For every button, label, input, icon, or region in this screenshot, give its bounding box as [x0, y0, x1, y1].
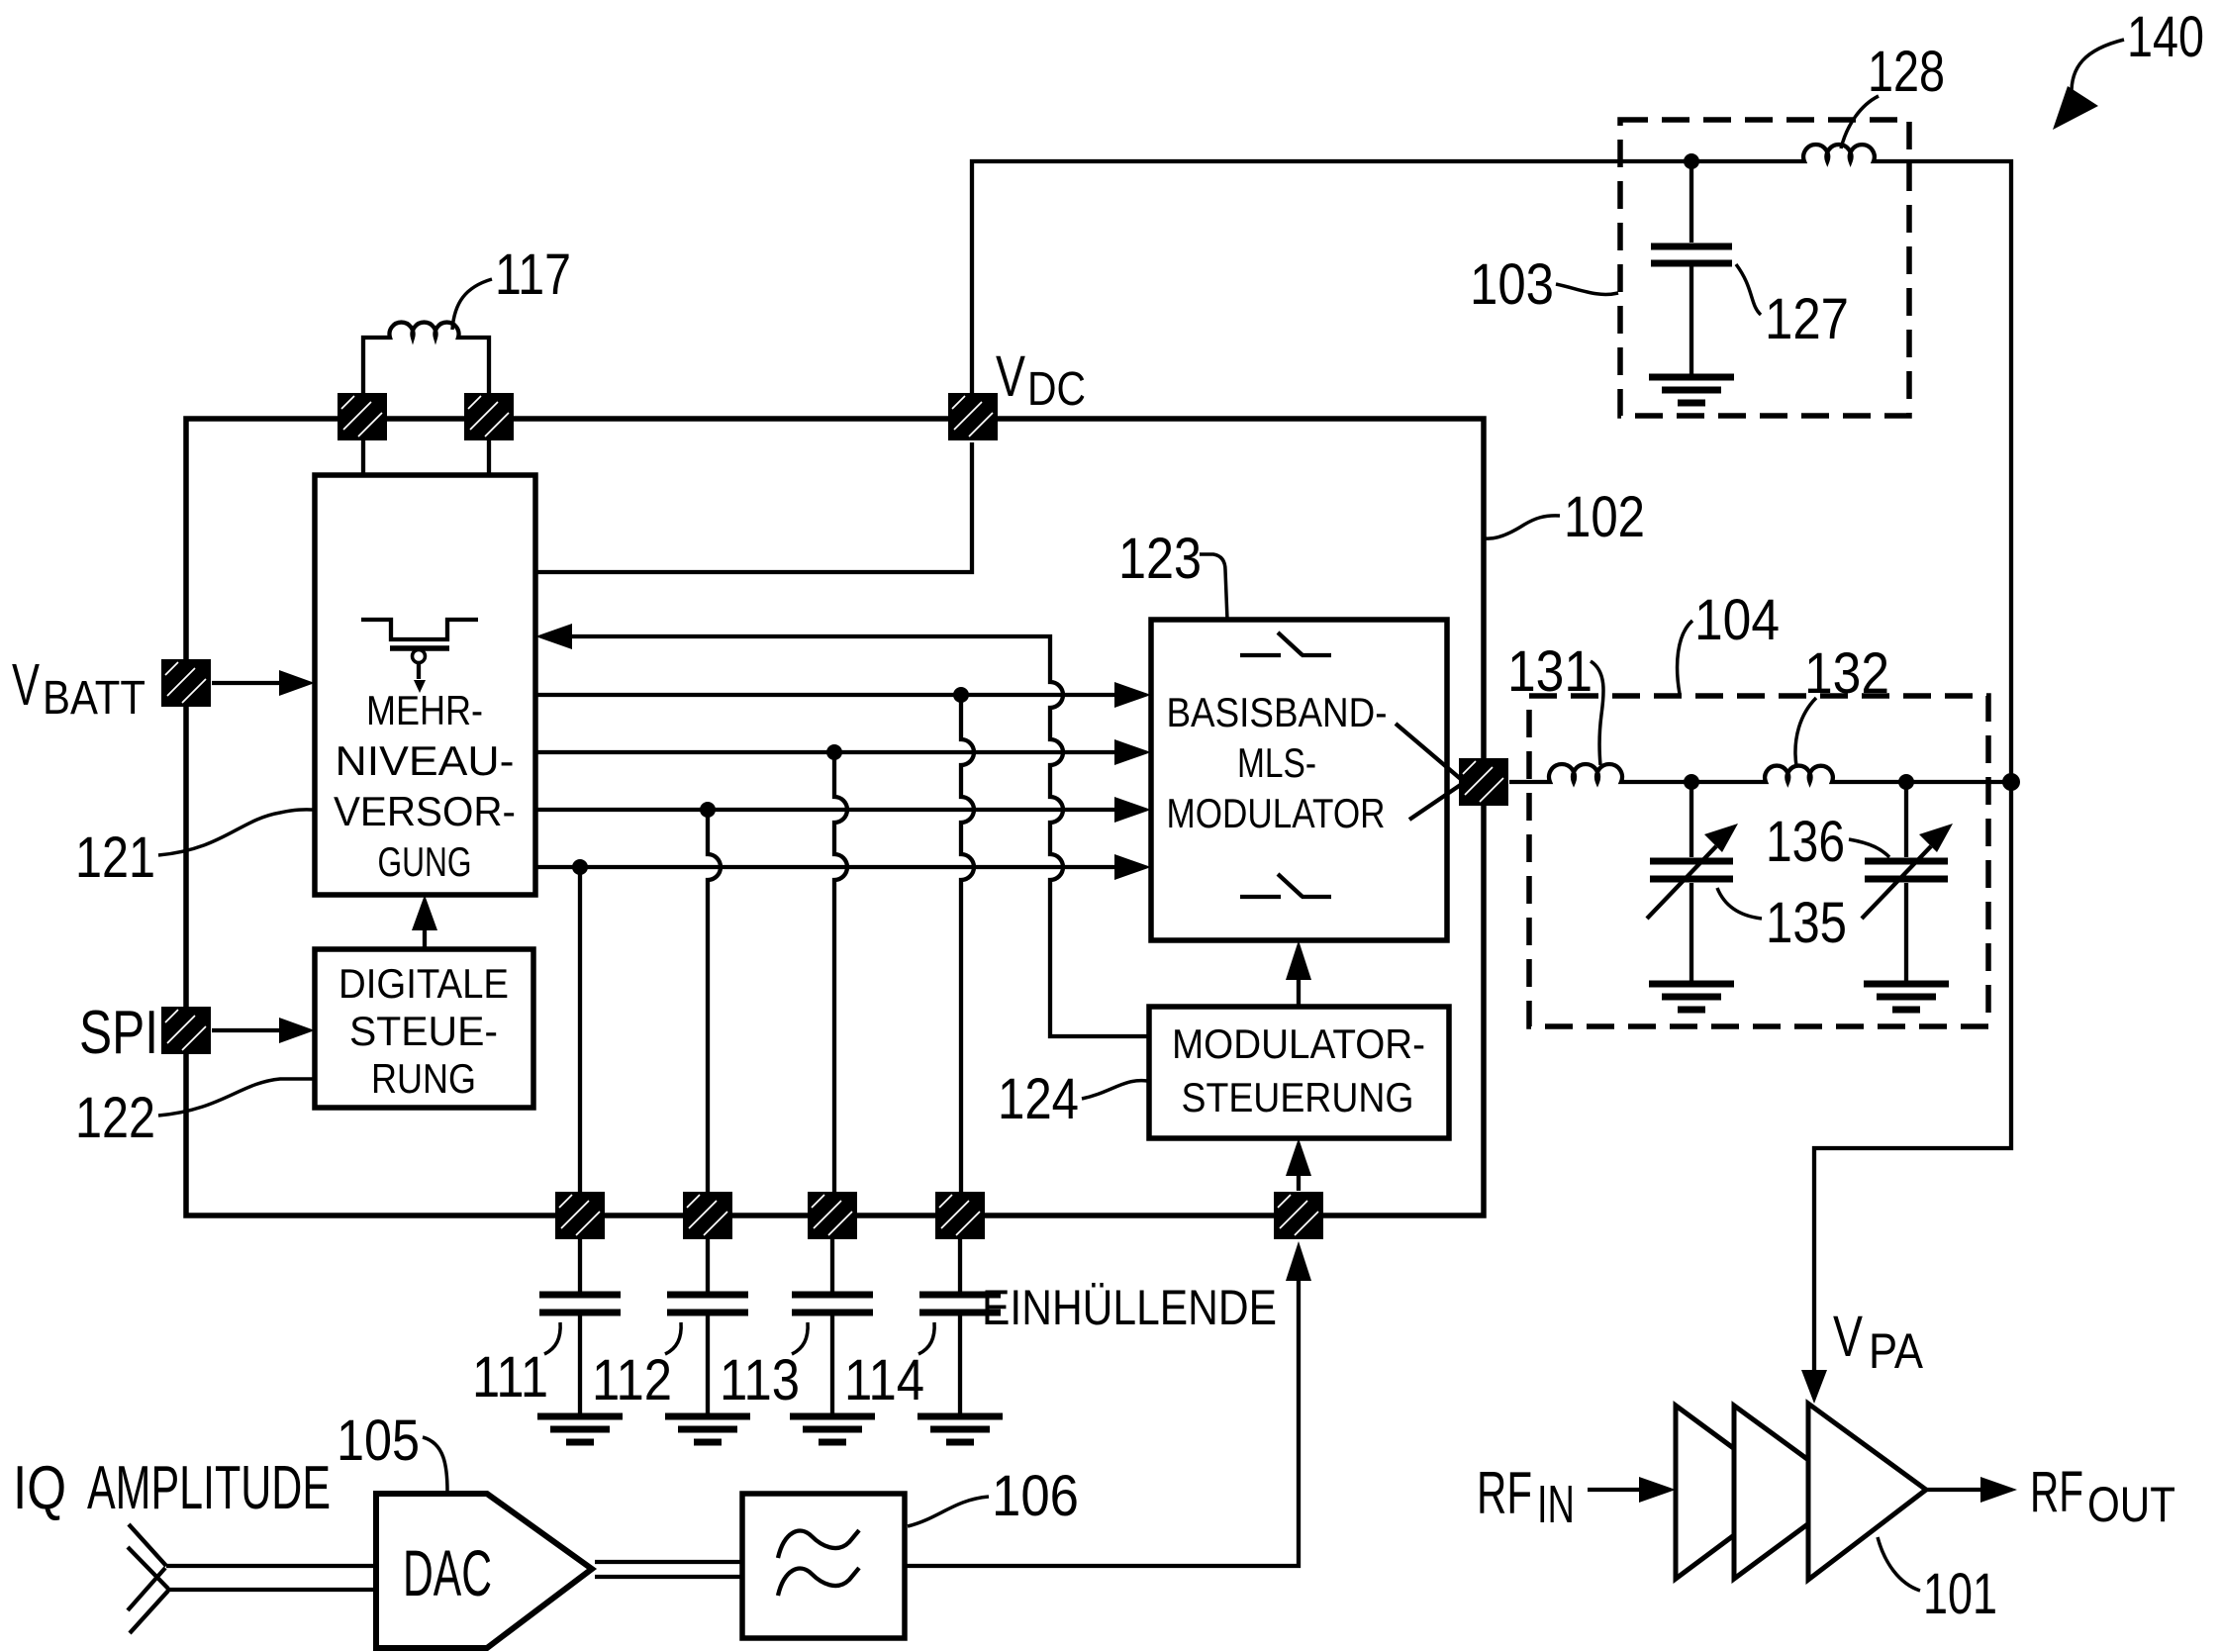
svg-text:111: 111 — [472, 1345, 548, 1409]
svg-text:AMPLITUDE: AMPLITUDE — [87, 1454, 331, 1522]
svg-text:124: 124 — [998, 1067, 1079, 1131]
svg-text:BASISBAND-: BASISBAND- — [1167, 689, 1388, 735]
svg-text:GUNG: GUNG — [378, 838, 472, 885]
svg-text:113: 113 — [720, 1348, 800, 1412]
svg-text:122: 122 — [75, 1086, 155, 1150]
svg-text:121: 121 — [75, 826, 155, 890]
svg-text:V: V — [996, 344, 1025, 409]
svg-text:MODULATOR: MODULATOR — [1167, 790, 1386, 836]
svg-text:140: 140 — [2127, 5, 2204, 69]
svg-text:DAC: DAC — [403, 1536, 492, 1609]
svg-text:127: 127 — [1765, 287, 1849, 351]
svg-text:RF: RF — [1477, 1460, 1532, 1526]
svg-text:123: 123 — [1118, 527, 1202, 591]
svg-text:112: 112 — [592, 1348, 672, 1412]
svg-text:104: 104 — [1694, 588, 1780, 652]
svg-text:MEHR-: MEHR- — [366, 687, 483, 733]
svg-text:V: V — [1833, 1305, 1863, 1369]
svg-text:RUNG: RUNG — [371, 1055, 476, 1102]
svg-text:106: 106 — [992, 1464, 1079, 1528]
svg-text:PA: PA — [1869, 1323, 1924, 1379]
svg-text:114: 114 — [844, 1348, 924, 1412]
svg-text:117: 117 — [495, 243, 571, 307]
svg-text:136: 136 — [1766, 810, 1845, 874]
svg-text:NIVEAU-: NIVEAU- — [336, 737, 515, 784]
svg-text:RF: RF — [2030, 1460, 2083, 1524]
svg-text:105: 105 — [337, 1409, 420, 1473]
svg-text:MLS-: MLS- — [1237, 739, 1316, 786]
svg-text:DIGITALE: DIGITALE — [338, 960, 509, 1007]
svg-text:BATT: BATT — [43, 672, 145, 725]
svg-text:102: 102 — [1564, 485, 1645, 549]
svg-text:IN: IN — [1537, 1475, 1575, 1534]
svg-text:MODULATOR-: MODULATOR- — [1172, 1020, 1425, 1067]
svg-text:OUT: OUT — [2087, 1477, 2175, 1532]
svg-text:128: 128 — [1868, 40, 1945, 104]
svg-text:STEUERUNG: STEUERUNG — [1182, 1074, 1414, 1120]
svg-text:101: 101 — [1923, 1562, 1997, 1626]
svg-text:131: 131 — [1507, 639, 1593, 704]
svg-text:STEUE-: STEUE- — [349, 1008, 498, 1054]
svg-text:IQ: IQ — [13, 1454, 66, 1522]
svg-text:132: 132 — [1804, 641, 1889, 706]
svg-text:V: V — [12, 652, 40, 718]
svg-text:DC: DC — [1027, 363, 1086, 416]
svg-text:EINHÜLLENDE: EINHÜLLENDE — [982, 1280, 1277, 1335]
svg-text:SPI: SPI — [79, 999, 158, 1067]
svg-text:103: 103 — [1470, 252, 1554, 317]
svg-text:VERSOR-: VERSOR- — [334, 788, 516, 834]
svg-text:135: 135 — [1766, 891, 1847, 955]
